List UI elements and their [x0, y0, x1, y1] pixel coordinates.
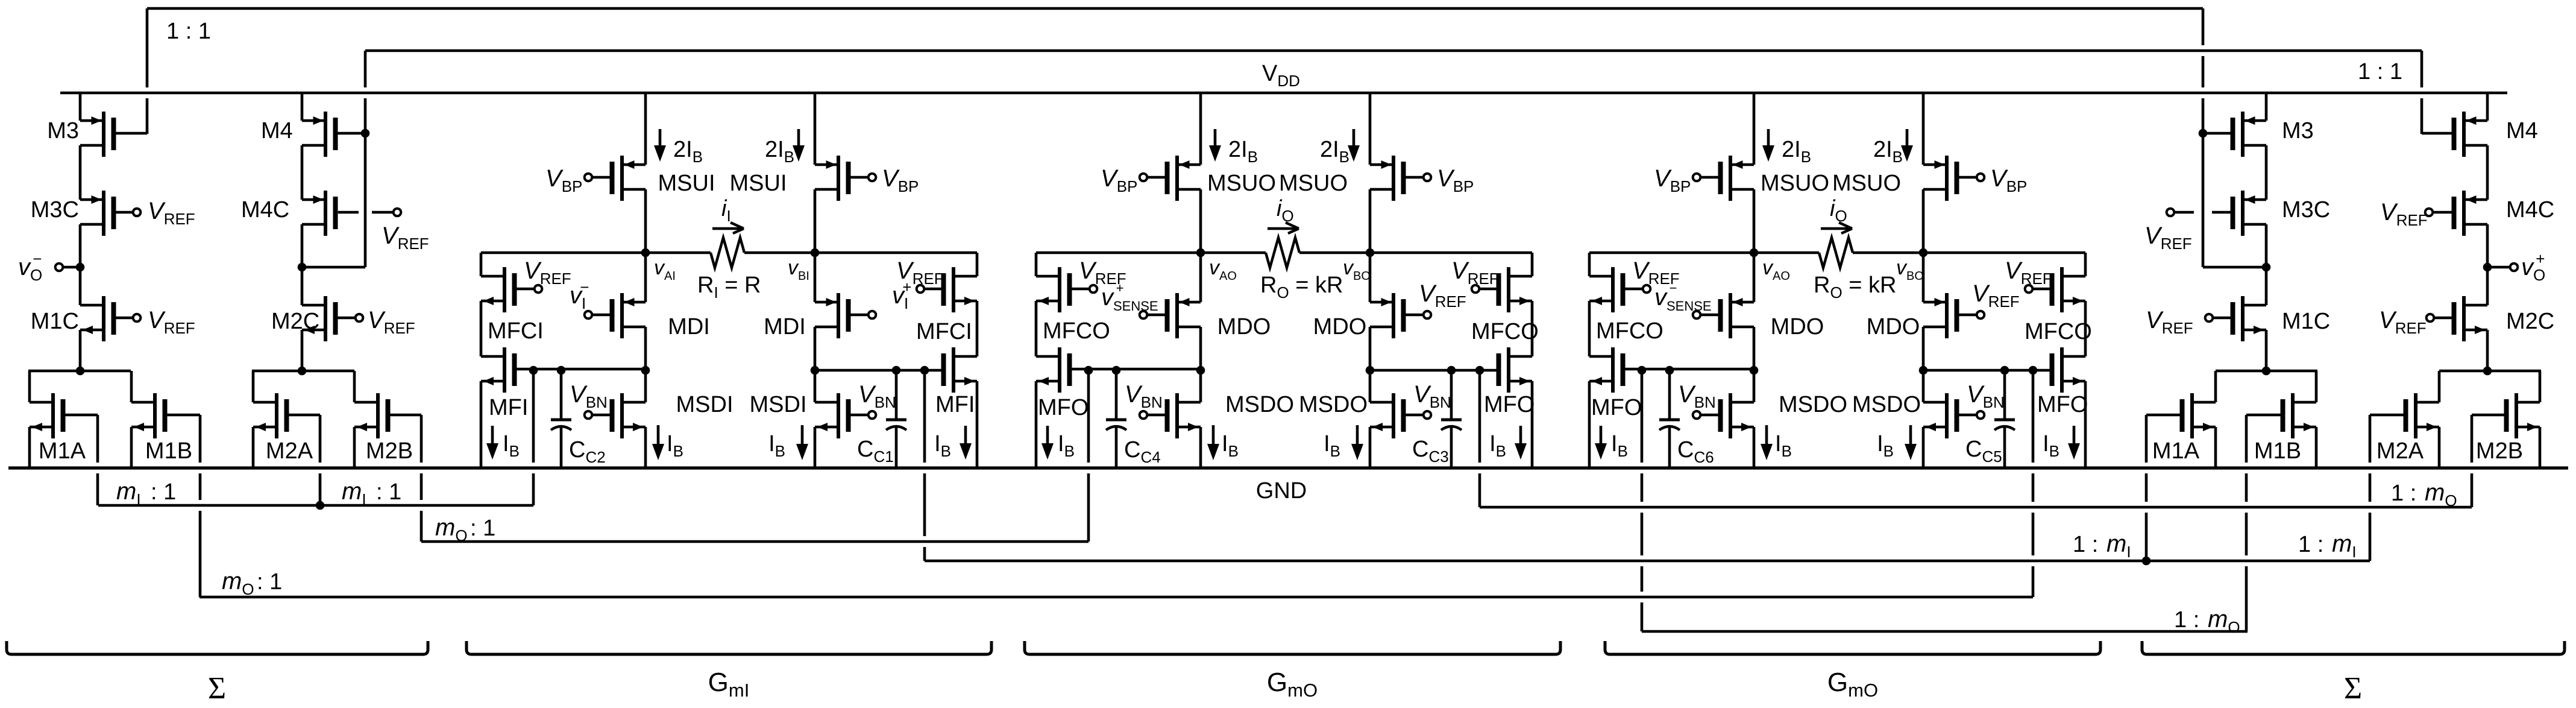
svg-text:VREF: VREF: [368, 307, 415, 337]
junction to mirror bus: [529, 366, 538, 375]
svg-text:VREF: VREF: [382, 223, 429, 253]
node vO+ junction: [2483, 263, 2492, 272]
svg-text:VREF: VREF: [2146, 307, 2193, 337]
wire MSUO right column: [1369, 93, 1372, 165]
resistor RI: [646, 251, 711, 254]
svg-text:MDI: MDI: [764, 314, 806, 340]
svg-text:MSUO: MSUO: [1832, 171, 1901, 196]
svg-text:MFO: MFO: [2037, 392, 2088, 417]
bus mO:1 left: [421, 540, 1089, 543]
transistor M2B: [353, 371, 356, 402]
svg-text:mI: mI: [342, 478, 366, 508]
capacitor C_C5: [2003, 370, 2006, 419]
svg-text:VBP: VBP: [1437, 165, 1474, 195]
wire M1A gate drop: [96, 415, 99, 463]
svg-text:M2A: M2A: [2377, 438, 2424, 464]
junction C_C top right: [892, 366, 901, 375]
svg-text:IB: IB: [503, 431, 520, 460]
wire M1A M1B drains: [28, 370, 131, 373]
wire M1B gate drop: [199, 415, 202, 463]
svg-text:MSDO: MSDO: [1225, 392, 1294, 417]
svg-text:RO = kR: RO = kR: [1260, 273, 1343, 302]
transistor MSDI left: [620, 393, 624, 438]
svg-text:M2B: M2B: [366, 438, 413, 464]
svg-text:2IB: 2IB: [1873, 137, 1903, 166]
wire MSUO right column: [1922, 93, 1925, 165]
current annotation IB MFO left: [1600, 426, 1603, 447]
wire fold node right: [1923, 369, 2050, 372]
transistor MSUI left: [620, 156, 624, 201]
svg-text:IB: IB: [1611, 431, 1628, 460]
svg-text:vBO: vBO: [1343, 256, 1371, 283]
bus 1:mO upper: [1480, 506, 2472, 509]
resistor RO: [1754, 251, 1819, 254]
transistor M1A right: [2214, 371, 2217, 402]
junction C_C top right: [1447, 366, 1456, 375]
node vBO: [1919, 248, 1928, 258]
transistor M1C: [102, 296, 105, 341]
node M2 drain junction: [298, 367, 307, 376]
svg-text:vI−: vI−: [570, 278, 589, 312]
svg-text:M4: M4: [261, 118, 293, 144]
svg-text:mO: mO: [2425, 479, 2457, 510]
svg-text:vBI: vBI: [788, 256, 809, 283]
wire MFO2 left gate drop: [1641, 370, 1644, 463]
svg-text:IB: IB: [667, 431, 683, 460]
svg-text:1 :: 1 :: [2073, 532, 2105, 557]
wire MFI left gate node: [517, 368, 646, 371]
svg-text:vSENSE+: vSENSE+: [1101, 280, 1158, 314]
wire fold column right (MFCO right branch): [2084, 253, 2087, 276]
transistor MFCI left: [503, 267, 506, 312]
svg-text:vAI: vAI: [654, 256, 676, 283]
svg-text:IB: IB: [1489, 431, 1506, 460]
wire MSUI right column: [814, 93, 817, 165]
junction M1A right gate on bus: [2142, 557, 2151, 566]
current annotation iI: [712, 227, 741, 230]
transistor MDO left: [1729, 293, 1732, 338]
wire M2A gate drop: [319, 415, 322, 463]
node M1 right drain junction: [2262, 367, 2271, 376]
wire M1A M1B right drains: [2216, 370, 2317, 373]
svg-text:MDO: MDO: [1313, 314, 1367, 340]
svg-text:vSENSE−: vSENSE−: [1654, 280, 1712, 314]
svg-text:MFI: MFI: [935, 392, 975, 417]
transistor M2A: [252, 371, 255, 402]
wire M1B right gate drop: [2245, 415, 2248, 463]
wire MFO1 left gate drop: [1087, 370, 1090, 463]
transistor MDO left: [1175, 293, 1179, 338]
svg-text:VREF: VREF: [1972, 280, 2020, 311]
terminal vO+: [2487, 266, 2510, 269]
svg-text:CC4: CC4: [1124, 437, 1161, 466]
transistor M4C: [324, 191, 327, 236]
wire fold column right (MFCO right branch): [1531, 253, 1534, 276]
transistor MDO right: [1392, 293, 1395, 338]
svg-text:mI: mI: [2332, 531, 2357, 561]
svg-text:CC3: CC3: [1412, 437, 1449, 466]
svg-text:1 : 1: 1 : 1: [2358, 59, 2402, 84]
transistor MFI right: [952, 347, 955, 393]
svg-text:VBN: VBN: [1125, 381, 1163, 411]
junction to mirror bus right: [1475, 366, 1484, 375]
transistor MDI left: [620, 293, 624, 338]
capacitor C_C4: [1115, 370, 1118, 419]
svg-text:MSDO: MSDO: [1299, 392, 1368, 417]
wire M3 right column: [2265, 93, 2268, 121]
junction C_C top right: [2000, 366, 2009, 375]
bus 1:mI: [925, 560, 2370, 563]
transistor M4C right: [2462, 191, 2466, 236]
svg-text:RO = kR: RO = kR: [1814, 273, 1896, 302]
svg-text:M2C: M2C: [271, 309, 319, 334]
transistor M4 right: [2462, 112, 2466, 157]
svg-text:MFO: MFO: [1484, 392, 1535, 417]
junction C_C top: [1665, 366, 1674, 375]
svg-text:VREF: VREF: [2005, 258, 2052, 288]
junction fold node right: [811, 366, 820, 375]
wire MSUO left column: [1199, 93, 1202, 165]
svg-text:: 1: : 1: [376, 479, 401, 505]
svg-text:mO: mO: [435, 514, 468, 545]
svg-text:GND: GND: [1256, 478, 1307, 504]
node vAO: [1750, 248, 1759, 258]
node M1 drain junction: [76, 367, 85, 376]
svg-text:Σ: Σ: [2344, 671, 2362, 706]
bus 1:mO lower: [1642, 630, 2248, 633]
svg-text:MSUI: MSUI: [730, 171, 787, 196]
svg-text:: 1: : 1: [257, 569, 282, 595]
svg-text:MFCI: MFCI: [916, 319, 972, 344]
svg-text:VREF: VREF: [524, 258, 571, 288]
svg-text:iO: iO: [1830, 196, 1847, 225]
svg-text:VREF: VREF: [148, 198, 195, 228]
svg-text:MSDO: MSDO: [1852, 392, 1921, 417]
svg-text:M1C: M1C: [2282, 309, 2330, 334]
current annotation IB MSD right: [1356, 425, 1359, 448]
svg-text:MSUO: MSUO: [1761, 171, 1829, 196]
current annotation 2IB left: [1214, 129, 1217, 150]
svg-text:MDO: MDO: [1771, 314, 1824, 340]
svg-text:2IB: 2IB: [765, 137, 794, 166]
svg-text:VREF: VREF: [2380, 199, 2428, 229]
capacitor C_C3: [1450, 370, 1453, 419]
svg-text:MFO: MFO: [1038, 395, 1089, 420]
svg-text:VREF: VREF: [2379, 307, 2427, 337]
wire M1A right gate drop: [2145, 415, 2148, 463]
transistor MSDO right: [1392, 393, 1395, 438]
node M3 right gate junction: [2199, 129, 2208, 138]
svg-text:MSUO: MSUO: [1279, 171, 1348, 196]
svg-text:M3C: M3C: [2282, 197, 2330, 223]
current annotation IB MFI left: [491, 426, 494, 447]
transistor MSUO right: [1945, 156, 1949, 201]
svg-text:VBN: VBN: [1413, 381, 1451, 411]
node vBI: [811, 248, 820, 258]
wire vBI to MFCI right: [815, 251, 977, 254]
transistor M2A right: [2438, 371, 2441, 402]
svg-text:mI: mI: [116, 478, 141, 508]
svg-text:vO+: vO+: [2521, 250, 2545, 284]
transistor MFO left: [1058, 347, 1061, 393]
wire fold node right: [1370, 369, 1497, 372]
svg-text:VBN: VBN: [858, 381, 896, 411]
capacitor C_C6: [1668, 370, 1671, 419]
node vO- junction: [76, 263, 85, 272]
wire M3 gate mirror loop 1:1 top: [147, 7, 2203, 10]
bus mI:1 left: [98, 504, 533, 507]
svg-text:IB: IB: [1058, 431, 1075, 460]
transistor M3 right: [2241, 112, 2245, 157]
wire fold column right (MFCI right branch): [976, 253, 979, 276]
wire M2B gate drop: [420, 415, 423, 463]
svg-text:: 1: : 1: [470, 516, 495, 541]
current annotation IB MSD left: [1765, 425, 1768, 448]
wire MSUI left column: [644, 93, 647, 165]
transistor M1A: [28, 371, 31, 402]
svg-text:mO: mO: [2208, 606, 2240, 636]
svg-text:1 :: 1 :: [2298, 532, 2330, 557]
svg-text:M3C: M3C: [31, 197, 79, 223]
node M3C right drain junction: [2262, 263, 2271, 272]
current annotation 2IB left: [659, 129, 662, 150]
svg-text:MSDO: MSDO: [1779, 392, 1847, 417]
wire vBO to MFCO right: [1923, 251, 2085, 254]
power rail VDD: [60, 92, 2507, 95]
current annotation IB MFI right: [964, 426, 967, 447]
svg-text:2IB: 2IB: [1782, 137, 1811, 166]
capacitor C_C2: [560, 370, 563, 419]
svg-text:IB: IB: [1775, 431, 1792, 460]
svg-text:VREF: VREF: [1419, 280, 1466, 311]
junction fold node left: [1750, 366, 1759, 375]
svg-text:: 1: : 1: [151, 479, 176, 505]
svg-text:M4C: M4C: [241, 197, 289, 223]
wire MFO left gate node: [1625, 368, 1754, 371]
resistor RO: [1201, 251, 1266, 254]
transistor M4: [324, 112, 327, 157]
current annotation IB MSD left: [657, 425, 660, 448]
current annotation 2IB right: [1906, 129, 1909, 150]
svg-text:MFCO: MFCO: [1596, 318, 1663, 344]
svg-text:vBO: vBO: [1896, 256, 1924, 283]
transistor MSDO left: [1175, 393, 1179, 438]
svg-text:mI: mI: [2106, 531, 2131, 561]
svg-text:M2C: M2C: [2506, 309, 2554, 334]
svg-text:M2B: M2B: [2476, 438, 2523, 464]
wire MFO left gate node: [1072, 368, 1201, 371]
wire MFI left gate drop: [532, 370, 535, 463]
node vBO: [1366, 248, 1375, 258]
svg-text:VBP: VBP: [545, 165, 582, 195]
svg-text:VBN: VBN: [570, 381, 608, 411]
current annotation IB MFO right: [1519, 426, 1522, 447]
svg-text:MSDI: MSDI: [750, 392, 807, 417]
svg-text:MSUO: MSUO: [1207, 171, 1276, 196]
transistor MSUO left: [1175, 156, 1179, 201]
svg-text:2IB: 2IB: [1320, 137, 1349, 166]
transistor MDO right: [1945, 293, 1949, 338]
svg-text:IB: IB: [2043, 431, 2059, 460]
svg-text:Σ: Σ: [208, 671, 226, 706]
svg-text:2IB: 2IB: [1228, 137, 1258, 166]
transistor M3C: [102, 191, 105, 236]
svg-text:VREF: VREF: [148, 307, 195, 337]
wire M4 right column: [2486, 93, 2489, 121]
transistor MFCI right: [952, 267, 955, 312]
svg-text:GmI: GmI: [708, 668, 750, 701]
transistor M1B right: [2315, 371, 2318, 402]
wire M4 gate to M4C drain: [364, 133, 367, 267]
wire M3 right gate to M3C drain: [2202, 8, 2205, 45]
junction fold node left: [1196, 366, 1205, 375]
junction C_C top: [557, 366, 566, 375]
svg-text:mO: mO: [222, 568, 254, 598]
wire M4 gate mirror loop 1:1 inner: [365, 49, 2422, 52]
wire fold node right: [815, 369, 941, 372]
svg-text:GmO: GmO: [1827, 668, 1878, 701]
ground rail GND: [8, 466, 2568, 469]
svg-text:VBN: VBN: [1967, 381, 2005, 411]
svg-text:iI: iI: [721, 196, 731, 225]
svg-text:1 : 1: 1 : 1: [166, 19, 211, 44]
junction fold node right: [1919, 366, 1928, 375]
svg-text:1 :: 1 :: [2174, 607, 2206, 633]
transistor MFCO left: [1611, 267, 1615, 312]
junction to mirror bus: [1638, 366, 1647, 375]
svg-text:vAO: vAO: [1209, 256, 1237, 283]
current annotation IB MSD right: [1909, 425, 1912, 448]
wire M3 column: [79, 93, 82, 121]
brace sigma left: [7, 641, 428, 654]
transistor MSUI right: [837, 156, 840, 201]
svg-text:2IB: 2IB: [673, 137, 703, 166]
junction to mirror bus: [1084, 366, 1093, 375]
wire fold column left (MFCO branch): [1589, 251, 1754, 254]
junction to mirror bus right: [2029, 366, 2038, 375]
transistor MSDI right: [837, 393, 840, 438]
wire M4 column: [301, 93, 304, 121]
svg-text:MDI: MDI: [668, 314, 710, 340]
svg-text:VBP: VBP: [1990, 165, 2027, 195]
node M4C drain junction: [298, 263, 307, 272]
transistor MFI left: [503, 347, 506, 393]
svg-text:IB: IB: [934, 431, 951, 460]
svg-text:1 :: 1 :: [2391, 481, 2423, 506]
svg-text:VREF: VREF: [896, 258, 944, 288]
wire M2B right gate drop: [2471, 415, 2474, 463]
wire M2A right gate drop: [2369, 415, 2372, 463]
transistor M2C right: [2462, 296, 2466, 341]
current annotation iO: [1821, 227, 1850, 230]
brace GmO first: [1025, 641, 1560, 654]
svg-text:M3: M3: [47, 118, 79, 144]
transistor MSUO right: [1392, 156, 1395, 201]
transistor MDI right: [837, 293, 840, 338]
transistor MSDO right: [1945, 393, 1949, 438]
transistor MSUO left: [1729, 156, 1732, 201]
svg-text:MFCI: MFCI: [488, 318, 544, 344]
wire MFO1 right gate drop: [1478, 370, 1481, 463]
wire vBO to MFCO right: [1370, 251, 1532, 254]
svg-text:CC6: CC6: [1677, 437, 1714, 466]
transistor MFCO right: [2060, 267, 2064, 312]
wire M2A M2B right drains: [2439, 370, 2541, 373]
svg-text:M2A: M2A: [266, 438, 313, 464]
transistor M3C right: [2241, 191, 2245, 236]
brace sigma right: [2142, 641, 2565, 654]
transistor MSDO left: [1729, 393, 1732, 438]
junction M2A gate on bus: [316, 501, 325, 510]
svg-text:VREF: VREF: [1451, 258, 1499, 288]
wire MFI right gate drop: [923, 370, 926, 463]
node vAO: [1196, 248, 1205, 258]
svg-text:VREF: VREF: [2144, 223, 2192, 253]
svg-text:MSDI: MSDI: [676, 392, 734, 417]
node M4 gate junction: [361, 129, 370, 138]
transistor M3: [102, 112, 105, 157]
svg-text:M3: M3: [2282, 118, 2314, 144]
bus mO:1 lower: [199, 596, 2033, 599]
current annotation 2IB left: [1767, 129, 1770, 150]
terminal vO-: [63, 266, 80, 269]
wire fold column left (MFCI branch): [481, 251, 646, 254]
current annotation 2IB right: [1352, 129, 1356, 150]
svg-text:MDO: MDO: [1217, 314, 1271, 340]
svg-text:GmO: GmO: [1267, 668, 1318, 701]
transistor M2C: [324, 296, 327, 341]
junction fold node right: [1366, 366, 1375, 375]
svg-text:VDD: VDD: [1262, 61, 1300, 90]
svg-text:VBP: VBP: [1654, 165, 1691, 195]
transistor M2B right: [2539, 371, 2542, 402]
current annotation IB MFO left: [1046, 426, 1049, 447]
svg-text:IB: IB: [768, 431, 785, 460]
brace GmO second: [1605, 641, 2100, 654]
transistor MFCO right: [1507, 267, 1510, 312]
wire M2A M2B drains: [252, 370, 354, 373]
svg-text:CC2: CC2: [569, 437, 606, 466]
current annotation IB MFO right: [2073, 426, 2076, 447]
svg-text:IB: IB: [1877, 431, 1894, 460]
junction C_C top: [1112, 366, 1121, 375]
svg-text:M4C: M4C: [2506, 197, 2554, 223]
current annotation IB MSD right: [801, 425, 804, 448]
svg-text:RI = R: RI = R: [697, 273, 761, 302]
junction fold node left: [641, 366, 650, 375]
wire MFO2 right gate drop: [2032, 370, 2035, 463]
svg-text:M1B: M1B: [145, 438, 192, 464]
wire MSUO left column: [1753, 93, 1756, 165]
transistor M1B: [130, 371, 133, 402]
svg-text:CC1: CC1: [857, 437, 894, 466]
svg-text:M1B: M1B: [2254, 438, 2301, 464]
svg-text:M1A: M1A: [2152, 438, 2200, 464]
svg-text:MSUI: MSUI: [658, 171, 715, 196]
svg-text:MFO: MFO: [1591, 395, 1642, 420]
node M2 right drain junction: [2483, 367, 2492, 376]
current annotation iO: [1268, 227, 1296, 230]
brace GmI: [467, 641, 991, 654]
svg-text:M1C: M1C: [31, 309, 79, 334]
svg-text:MFI: MFI: [489, 395, 528, 420]
svg-text:M1A: M1A: [39, 438, 86, 464]
svg-text:VBN: VBN: [1678, 381, 1716, 411]
svg-text:CC5: CC5: [1965, 437, 2002, 466]
transistor MFO right: [2060, 347, 2064, 393]
current annotation 2IB right: [797, 129, 800, 150]
transistor M1C right: [2241, 296, 2245, 341]
